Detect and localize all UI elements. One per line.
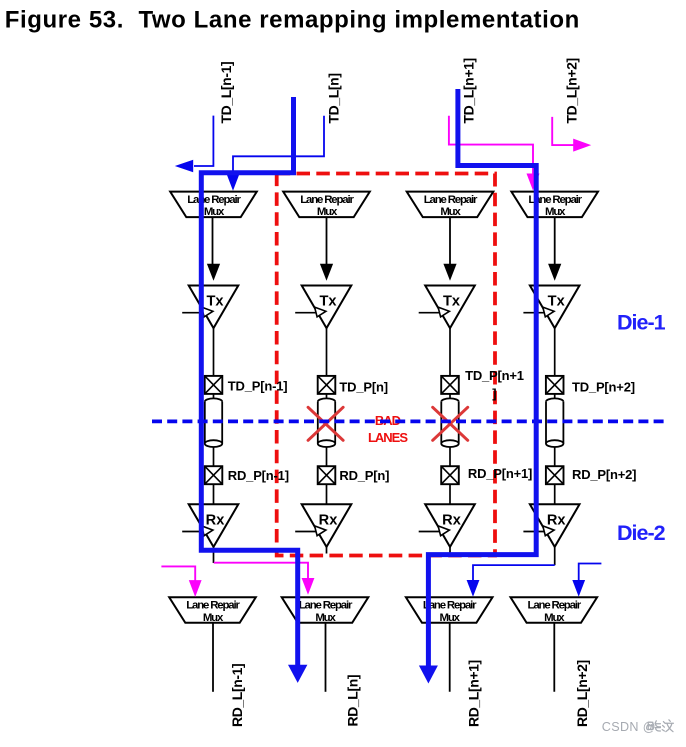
Tx buffer Tx2: [302, 286, 352, 329]
die boundary dashed blue line: [152, 420, 666, 424]
bump pad RD_P pad col3: [441, 466, 459, 484]
Rx2 enable input wire: [295, 531, 320, 533]
lane repair mux U2A (TX die): [283, 192, 370, 219]
svg-text:TD_L[n]: TD_L[n]: [326, 73, 342, 123]
bad lane X mark col2: [308, 407, 343, 440]
wire TD pad to cylinder col4: [554, 394, 556, 402]
blue wire Rx4 output remap to RD mux 3: [473, 565, 555, 581]
wire Tx2 to TD pad: [326, 328, 328, 376]
svg-text:Tx: Tx: [319, 294, 337, 310]
wire mux U4B output (RD_L[n+2]): [553, 623, 555, 692]
Rx3 enable open arrowhead: [438, 526, 449, 536]
interconnect cylinder col2: [318, 398, 335, 447]
Rx buffer Rx1: [189, 504, 239, 547]
magenta arrowhead into bottom mux 1: [189, 580, 202, 597]
wire mux U4A output to Tx4: [554, 217, 556, 264]
Tx4 enable open arrowhead: [543, 307, 554, 317]
svg-text:RD_P[n-1]: RD_P[n-1]: [228, 468, 289, 483]
wire Rx3 output stub: [449, 547, 451, 554]
Rx1 enable open arrowhead: [202, 526, 213, 536]
Tx2 enable open arrowhead: [315, 307, 326, 317]
blue arrowhead into top mux 1: [227, 174, 240, 191]
svg-text:Rx: Rx: [206, 513, 226, 529]
arrowhead into Tx3: [443, 264, 456, 281]
interconnect cylinder col1: [205, 398, 222, 447]
wire mux U1A output to Tx1: [212, 217, 214, 264]
magenta wire from left into RD mux 1: [161, 566, 195, 581]
bump pad RD_P pad col1: [205, 466, 223, 484]
svg-text:Lane Repair: Lane Repair: [528, 600, 582, 612]
Tx1 enable open arrowhead: [202, 307, 213, 317]
blue arrowhead into bottom mux 3: [467, 580, 480, 597]
svg-text:Rx: Rx: [442, 513, 462, 529]
bump pad TD_P pad col2: [318, 376, 336, 394]
bad lane X mark col3: [433, 407, 468, 440]
svg-text:Mux: Mux: [440, 206, 461, 218]
svg-text:Mux: Mux: [545, 206, 566, 218]
blue wire TD_L[n-1] remap out left: [194, 116, 213, 166]
wire cylinder to RD pad col2: [326, 447, 328, 467]
svg-text:RD_P[n+2]: RD_P[n+2]: [572, 467, 636, 482]
svg-text:TD_P[n+1: TD_P[n+1: [465, 368, 524, 383]
wire TD pad to cylinder col2: [326, 394, 328, 402]
wire cylinder to RD pad col3: [449, 447, 451, 467]
arrowhead into Tx2: [320, 264, 333, 281]
thick blue arrowhead RD_L[n+1]: [419, 666, 438, 684]
svg-text:Mux: Mux: [317, 206, 338, 218]
Tx4 enable input wire: [523, 312, 548, 314]
Rx4 enable input wire: [523, 531, 548, 533]
wire mux U1B output (RD_L[n-1]): [212, 623, 214, 692]
svg-text:Lane Repair: Lane Repair: [187, 194, 241, 206]
magenta arrowhead pointing right: [573, 139, 591, 152]
svg-text:TD_L[n+2]: TD_L[n+2]: [564, 58, 580, 123]
wire Rx1 output stub: [213, 547, 215, 563]
lane repair mux U4B (RX die): [511, 597, 598, 624]
svg-text:RD_L[n+2]: RD_L[n+2]: [574, 660, 590, 727]
blue arrowhead pointing left: [175, 160, 193, 173]
bump pad TD_P pad col4: [546, 376, 564, 394]
lane repair mux U1A (TX die): [170, 192, 257, 219]
svg-text:Lane Repair: Lane Repair: [186, 600, 240, 612]
svg-text:RD_P[n]: RD_P[n]: [339, 468, 389, 483]
arrowhead into Tx1: [207, 264, 220, 281]
Tx buffer Tx1: [189, 286, 239, 329]
Rx buffer Rx4: [530, 504, 580, 547]
svg-text:Tx: Tx: [443, 294, 461, 310]
svg-text:Rx: Rx: [547, 513, 567, 529]
thick blue arrowhead RD_L[n]: [288, 665, 307, 683]
arrowhead into Tx4: [548, 264, 561, 281]
lane repair mux U1B (RX die): [169, 597, 256, 624]
lane repair mux U3A (TX die): [407, 192, 494, 219]
wire cylinder to RD pad col4: [554, 447, 556, 467]
bump pad RD_P pad col4: [546, 466, 564, 484]
wire Tx1 to TD pad: [213, 328, 215, 376]
lane repair mux U2B (RX die): [282, 597, 369, 624]
wire Tx3 to TD pad: [449, 328, 451, 376]
bump pad TD_P pad col3: [441, 376, 459, 394]
wire TD pad to cylinder col1: [213, 394, 215, 402]
wire RD pad to Rx1: [213, 484, 215, 505]
blue wire TD_L[n] remap into mux 1: [233, 116, 324, 175]
svg-text:TD_L[n-1]: TD_L[n-1]: [218, 62, 234, 124]
svg-text:Die-2: Die-2: [617, 521, 666, 545]
wire mux U3B output (RD_L[n+1]): [449, 623, 451, 692]
wire Tx4 to TD pad: [554, 328, 556, 376]
bad-lanes dashed red box: [277, 174, 495, 556]
svg-text:]: ]: [492, 386, 496, 401]
svg-text:Tx: Tx: [206, 294, 224, 310]
Rx buffer Rx2: [302, 504, 352, 547]
Tx3 enable open arrowhead: [438, 307, 449, 317]
blue wire from right into RD mux 4: [579, 564, 602, 582]
wire mux U3A output to Tx3: [449, 217, 451, 264]
svg-text:Mux: Mux: [315, 612, 336, 624]
svg-text:Lane Repair: Lane Repair: [423, 600, 477, 612]
Rx4 enable open arrowhead: [543, 526, 554, 536]
svg-text:Tx: Tx: [548, 294, 566, 310]
svg-text:Die-1: Die-1: [617, 311, 666, 335]
svg-text:Mux: Mux: [544, 612, 565, 624]
magenta wire TD_L[n+2] remap out right: [552, 117, 574, 145]
svg-text:RD_L[n+1]: RD_L[n+1]: [466, 660, 482, 727]
bump pad TD_P pad col1: [205, 376, 223, 394]
svg-text:Mux: Mux: [440, 612, 461, 624]
lane repair mux U4A (TX die): [511, 192, 598, 219]
magenta arrowhead into top mux 4: [527, 174, 540, 191]
svg-text:Rx: Rx: [319, 513, 339, 529]
svg-text:Lane Repair: Lane Repair: [424, 194, 478, 206]
svg-text:TD_P[n+2]: TD_P[n+2]: [572, 379, 635, 394]
svg-text:TD_P[n]: TD_P[n]: [339, 379, 387, 394]
wire Rx2 output stub: [326, 547, 328, 554]
blue arrowhead into bottom mux 4: [572, 580, 585, 597]
magenta wire TD_L[n+1] remap to lane n+2 mux: [449, 116, 533, 175]
Rx buffer Rx3: [425, 504, 475, 547]
svg-text:LANES: LANES: [368, 430, 408, 445]
svg-text:Mux: Mux: [203, 612, 224, 624]
interconnect cylinder col3: [441, 398, 458, 447]
svg-text:Lane Repair: Lane Repair: [300, 194, 354, 206]
Rx1 enable input wire: [182, 531, 207, 533]
svg-text:RD_L[n-1]: RD_L[n-1]: [229, 664, 245, 727]
wire cylinder to RD pad col1: [213, 447, 215, 467]
svg-text:Mux: Mux: [204, 206, 225, 218]
Rx2 enable open arrowhead: [315, 526, 326, 536]
Tx buffer Tx4: [530, 286, 580, 329]
bump pad RD_P pad col2: [318, 466, 336, 484]
wire RD pad to Rx3: [449, 484, 451, 505]
thick blue path TD_L[n] through lane n-1 to RD_L[n]: [201, 97, 297, 666]
svg-text:Lane Repair: Lane Repair: [299, 600, 353, 612]
wire TD pad to cylinder col3: [449, 394, 451, 402]
svg-text:Figure 53. Two Lane remapping: Figure 53. Two Lane remapping implementa…: [5, 7, 580, 34]
svg-text:RD_L[n]: RD_L[n]: [345, 675, 361, 727]
interconnect cylinder col4: [546, 398, 563, 447]
wire mux U2B output (RD_L[n]): [325, 623, 327, 692]
wire Rx4 output stub: [554, 547, 556, 565]
wire mux U2A output to Tx2: [326, 217, 328, 264]
wire RD pad to Rx4: [554, 484, 556, 505]
thick blue path TD_L[n+1] through lane n+2 to RD_L[n+1]: [428, 89, 536, 667]
wire RD pad to Rx2: [326, 484, 328, 505]
magenta arrowhead into bottom mux 2: [302, 578, 315, 595]
Tx buffer Tx3: [425, 286, 475, 329]
magenta wire Rx1 output remap to RD mux 2: [214, 563, 308, 579]
Rx3 enable input wire: [419, 531, 444, 533]
Tx1 enable input wire: [182, 312, 207, 314]
lane repair mux U3B (RX die): [406, 597, 493, 624]
svg-text:TD_L[n+1]: TD_L[n+1]: [461, 58, 477, 123]
svg-text:RD_P[n+1]: RD_P[n+1]: [468, 466, 532, 481]
Tx2 enable input wire: [295, 312, 320, 314]
Tx3 enable input wire: [419, 312, 444, 314]
svg-text:TD_P[n-1]: TD_P[n-1]: [228, 379, 288, 394]
